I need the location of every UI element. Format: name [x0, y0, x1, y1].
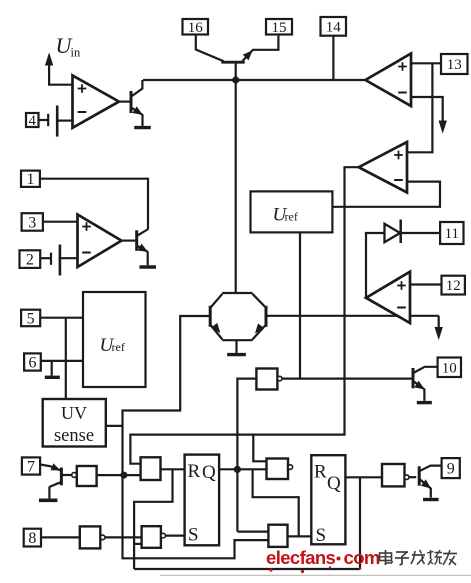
svg-text:ref: ref [285, 210, 298, 224]
svg-text:13: 13 [447, 57, 462, 73]
svg-text:10: 10 [442, 360, 457, 376]
svg-text:11: 11 [445, 226, 459, 242]
svg-text:com: com [344, 547, 380, 568]
svg-text:7: 7 [27, 458, 35, 475]
svg-text:elecfans: elecfans [266, 547, 336, 568]
svg-text:ref: ref [112, 340, 125, 354]
svg-text:4: 4 [29, 113, 37, 129]
svg-text:5: 5 [27, 310, 35, 327]
svg-text:16: 16 [188, 20, 204, 36]
svg-text:14: 14 [326, 19, 342, 35]
svg-text:1: 1 [26, 171, 34, 188]
svg-text:15: 15 [272, 20, 287, 36]
svg-text:S: S [316, 525, 327, 546]
svg-text:UV: UV [61, 403, 87, 423]
svg-text:3: 3 [28, 214, 36, 231]
svg-text:S: S [188, 525, 199, 546]
svg-text:Q: Q [202, 462, 216, 483]
svg-text:9: 9 [447, 461, 455, 478]
svg-text:R: R [188, 461, 201, 482]
svg-text:8: 8 [28, 530, 36, 547]
svg-text:sense: sense [54, 426, 94, 446]
svg-text:12: 12 [446, 278, 461, 294]
svg-text:R: R [314, 462, 327, 483]
svg-text:Q: Q [327, 473, 341, 494]
svg-text:6: 6 [28, 354, 36, 371]
svg-text:2: 2 [26, 252, 34, 269]
svg-text:in: in [71, 46, 81, 60]
